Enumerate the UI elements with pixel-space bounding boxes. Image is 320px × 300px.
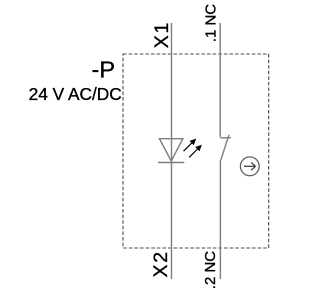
svg-text:X2: X2	[150, 250, 172, 277]
terminal label .1 NC	[202, 4, 219, 43]
svg-text:-P: -P	[92, 57, 116, 83]
svg-text:X1: X1	[151, 21, 173, 48]
wire X1 to X2 (lamp branch)	[171, 23, 173, 279]
LED lamp triangle	[159, 139, 183, 161]
dashed enclosure (device boundary)	[123, 54, 269, 248]
LED cathode bar	[158, 162, 184, 164]
NC contact lower wire (.2)	[219, 160, 221, 279]
actuator symbol circle	[240, 157, 259, 176]
NC contact fixed tick	[220, 137, 231, 139]
terminal label X2	[150, 250, 172, 277]
svg-text:.1 NC: .1 NC	[202, 4, 219, 43]
svg-text:24 V AC/DC: 24 V AC/DC	[29, 84, 122, 104]
actuator arrow	[244, 162, 256, 170]
NC contact upper wire (.1)	[219, 23, 221, 137]
NC contact moving blade	[221, 135, 229, 161]
LED light emission arrow 1	[184, 139, 197, 152]
value label 24 V AC/DC	[29, 84, 122, 104]
terminal label X1	[151, 21, 173, 48]
LED light emission arrow 2	[189, 145, 202, 158]
svg-text:.2 NC: .2 NC	[202, 251, 219, 290]
terminal label .2 NC	[202, 251, 219, 290]
device tag -P	[92, 57, 116, 83]
